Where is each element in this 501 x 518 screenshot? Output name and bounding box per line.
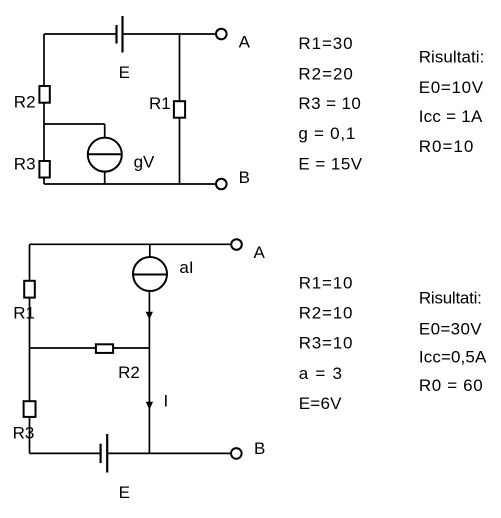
- battery E (bottom) long plate: [106, 434, 108, 473]
- svg-text:Risultati:: Risultati:: [419, 288, 482, 307]
- label R2 (bottom circuit): [118, 363, 140, 382]
- controlled source gV circle: [88, 138, 122, 172]
- wire bottom-right horizontal (bottom circuit): [107, 452, 231, 454]
- wire middle horizontal (bottom circuit): [30, 347, 150, 349]
- label E (bottom battery): [119, 483, 130, 502]
- svg-text:B: B: [239, 168, 250, 187]
- svg-text:R2=10: R2=10: [299, 303, 353, 322]
- value label R3=10 (bottom circuit): [299, 334, 353, 353]
- svg-text:I: I: [164, 392, 169, 411]
- wire mid horizontal to controlled source: [44, 123, 105, 125]
- label A (bottom circuit): [254, 243, 266, 262]
- battery E (top) long plate: [121, 16, 123, 53]
- svg-text:R1: R1: [149, 94, 171, 113]
- wire top horizontal (bottom circuit): [30, 243, 232, 245]
- resistor R2 (top circuit): [39, 86, 49, 103]
- arrow current direction (upper): [146, 312, 153, 320]
- svg-text:a = 3: a = 3: [299, 364, 342, 383]
- label R3 (top circuit): [14, 154, 36, 173]
- svg-text:R0=10: R0=10: [419, 137, 474, 156]
- svg-text:E: E: [119, 63, 130, 82]
- svg-text:R3 = 10: R3 = 10: [298, 94, 361, 113]
- svg-text:R3: R3: [14, 154, 36, 173]
- svg-text:R2: R2: [14, 92, 36, 111]
- svg-text:gV: gV: [134, 152, 155, 171]
- label A (top circuit): [239, 32, 251, 51]
- label R3 (bottom circuit): [13, 424, 35, 443]
- svg-text:R1=30: R1=30: [298, 34, 352, 53]
- wire below current source vertical: [148, 290, 150, 453]
- svg-text:B: B: [254, 439, 265, 458]
- label B (bottom circuit): [254, 439, 265, 458]
- resistor R2 (bottom circuit, horizontal): [96, 344, 113, 353]
- svg-text:A: A: [254, 243, 266, 262]
- wire into controlled source top: [104, 124, 106, 139]
- svg-text:E=6V: E=6V: [299, 394, 342, 413]
- wire from controlled source bottom: [104, 171, 106, 184]
- terminal A (top circuit): [216, 29, 227, 40]
- terminal B (bottom circuit): [231, 448, 242, 459]
- result Icc = 1A (top circuit): [419, 107, 483, 126]
- label R1 (top circuit): [149, 94, 171, 113]
- wire left vertical: [43, 34, 45, 184]
- svg-text:E: E: [119, 483, 130, 502]
- svg-text:A: A: [239, 32, 251, 51]
- label R1 (bottom circuit): [13, 304, 35, 323]
- resistor R1 (bottom circuit): [24, 281, 35, 298]
- terminal A (bottom circuit): [231, 239, 242, 250]
- battery E (bottom) short plate: [99, 444, 101, 463]
- svg-text:Icc = 1A: Icc = 1A: [419, 107, 483, 126]
- svg-text:E0=10V: E0=10V: [419, 78, 484, 97]
- resistor R3 (top circuit): [39, 161, 49, 178]
- svg-text:E = 15V: E = 15V: [298, 155, 362, 174]
- resistor R1 (top circuit): [174, 101, 185, 118]
- value label R3 = 10 (top circuit): [298, 94, 361, 113]
- result E0=30V (bottom circuit): [419, 320, 482, 339]
- svg-text:R2: R2: [118, 363, 140, 382]
- wire R1 branch vertical: [179, 34, 181, 184]
- value label a = 3 (bottom circuit): [299, 364, 342, 383]
- arrow current direction (lower) with label I: [146, 402, 153, 410]
- svg-text:E0=30V: E0=30V: [419, 320, 482, 339]
- wire bottom-left horizontal (bottom circuit): [30, 452, 102, 454]
- result R0 = 60 (bottom circuit): [419, 376, 483, 395]
- result R0=10 (top circuit): [419, 137, 474, 156]
- value label R1=10 (bottom circuit): [299, 274, 353, 293]
- value label R2=20 (top circuit): [298, 64, 353, 83]
- wire left vertical (bottom circuit): [29, 244, 31, 453]
- value label R1=30 (top circuit): [298, 34, 352, 53]
- terminal B (top circuit): [216, 179, 227, 190]
- svg-text:R2=20: R2=20: [298, 64, 353, 83]
- svg-text:R1=10: R1=10: [299, 274, 353, 293]
- label B (top circuit): [239, 168, 250, 187]
- svg-text:R3=10: R3=10: [299, 334, 353, 353]
- wire top-left horizontal: [44, 33, 117, 35]
- label I (current): [164, 392, 169, 411]
- resistor R3 (bottom circuit): [24, 401, 36, 417]
- results heading Risultati: (top circuit): [419, 48, 485, 67]
- svg-text:g = 0,1: g = 0,1: [298, 124, 355, 143]
- label gV: [134, 152, 155, 171]
- svg-text:Risultati:: Risultati:: [419, 48, 485, 67]
- value label R2=10 (bottom circuit): [299, 303, 353, 322]
- svg-text:Icc=0,5A: Icc=0,5A: [419, 347, 487, 366]
- result E0=10V (top circuit): [419, 78, 484, 97]
- wire top-right horizontal: [123, 33, 216, 35]
- current source aI circle: [133, 257, 167, 291]
- results heading Risultati: (bottom circuit): [419, 288, 482, 307]
- svg-text:aI: aI: [179, 258, 193, 277]
- svg-text:R1: R1: [13, 304, 35, 323]
- label aI: [179, 258, 193, 277]
- wire current source stem: [149, 244, 151, 258]
- value label g = 0,1 (top circuit): [298, 124, 355, 143]
- label R2 (top circuit): [14, 92, 36, 111]
- svg-text:R0 = 60: R0 = 60: [419, 376, 483, 395]
- result Icc=0,5A (bottom circuit): [419, 347, 487, 366]
- value label E=6V (bottom circuit): [299, 394, 342, 413]
- label E (top battery): [119, 63, 130, 82]
- svg-text:R3: R3: [13, 424, 35, 443]
- value label E = 15V (top circuit): [298, 155, 362, 174]
- battery E (top) short plate: [115, 25, 117, 44]
- wire bottom horizontal: [44, 183, 216, 185]
